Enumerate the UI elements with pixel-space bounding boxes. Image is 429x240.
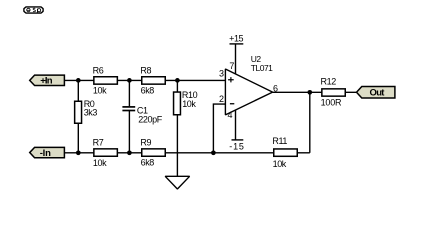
svg-text:100R: 100R: [321, 97, 342, 107]
svg-text:R9: R9: [140, 137, 151, 147]
svg-text:2: 2: [219, 94, 224, 104]
svg-text:R11: R11: [272, 136, 287, 146]
svg-text:10k: 10k: [93, 158, 107, 168]
svg-text:3k3: 3k3: [84, 107, 98, 117]
svg-text:6: 6: [273, 83, 278, 93]
svg-text:Out: Out: [370, 88, 386, 99]
svg-text:-In: -In: [40, 148, 51, 159]
svg-text:R12: R12: [321, 77, 337, 87]
svg-text:220pF: 220pF: [138, 115, 162, 125]
svg-text:3: 3: [219, 69, 224, 79]
svg-text:TL071: TL071: [251, 63, 273, 73]
svg-text:6k8: 6k8: [141, 85, 155, 95]
svg-text:+15: +15: [229, 33, 243, 43]
svg-text:10k: 10k: [273, 159, 287, 169]
svg-text:R7: R7: [93, 137, 104, 147]
svg-text:R6: R6: [93, 65, 104, 75]
svg-text:6k8: 6k8: [141, 158, 155, 168]
svg-text:+In: +In: [40, 75, 53, 86]
svg-text:R8: R8: [140, 65, 151, 75]
svg-text:-15: -15: [229, 141, 244, 151]
svg-text:10k: 10k: [182, 99, 196, 109]
svg-text:7: 7: [229, 61, 234, 71]
svg-text:4: 4: [228, 110, 233, 120]
svg-text:10k: 10k: [93, 86, 107, 96]
